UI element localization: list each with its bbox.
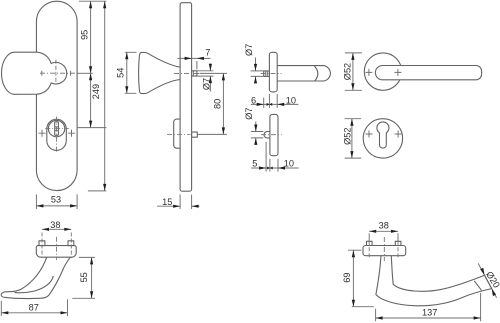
dimension text 249 xyxy=(91,84,101,99)
svg-text:80: 80 xyxy=(213,99,223,109)
extension lines 6 and 10 xyxy=(264,94,278,108)
knob vertical centerline xyxy=(55,60,57,84)
svg-text:54: 54 xyxy=(116,68,126,78)
dimension text 10 xyxy=(284,158,294,168)
keyway xyxy=(55,122,59,135)
dimension text diameter-7 spindle xyxy=(202,78,212,90)
svg-text:6: 6 xyxy=(251,95,256,105)
extension lines 69 xyxy=(348,250,374,307)
screw cross left xyxy=(365,69,372,76)
dimension 80 line xyxy=(222,73,225,134)
dimension text diameter-7 top xyxy=(244,44,254,56)
dimension 15 line xyxy=(157,205,200,208)
cylinder circle xyxy=(48,120,64,136)
cylinder oval xyxy=(47,119,67,150)
extension lines 137 xyxy=(376,293,481,321)
spindle xyxy=(192,71,197,76)
dimension text diameter-52 top xyxy=(343,63,353,80)
screw left xyxy=(367,241,373,245)
dimension 87 line xyxy=(1,311,67,314)
cylinder stub xyxy=(264,132,270,138)
rosette circle xyxy=(363,119,402,158)
dimension 69 line xyxy=(352,250,355,307)
dimension diameter-52 line top xyxy=(351,53,354,90)
extension line cylinder center xyxy=(78,127,107,129)
rosette side outline xyxy=(269,52,277,92)
dimension text 38 xyxy=(379,221,389,231)
plate side outline xyxy=(180,3,192,192)
extension line knob center xyxy=(78,72,93,74)
dimension text 54 xyxy=(116,68,126,78)
dimension text 5 xyxy=(252,158,257,168)
svg-text:95: 95 xyxy=(79,30,89,40)
svg-text:Ø7: Ø7 xyxy=(244,107,254,119)
handle outline xyxy=(1,257,70,298)
svg-text:55: 55 xyxy=(79,272,89,282)
extension lines 5 and 10 xyxy=(266,142,278,172)
svg-text:38: 38 xyxy=(379,221,389,231)
extension lines stub diameter xyxy=(251,132,263,138)
svg-text:249: 249 xyxy=(91,84,101,99)
screw centerlines 38 xyxy=(42,233,71,259)
dimension 249 line xyxy=(103,1,106,191)
stub centerline xyxy=(261,134,282,136)
extension lines 38 xyxy=(369,233,398,258)
rosette side outline xyxy=(270,114,278,155)
cylinder vertical centerline xyxy=(56,117,58,154)
mounting plate xyxy=(36,246,76,258)
dimension diameter-7 stub bottom xyxy=(254,122,257,145)
screw cross right xyxy=(395,131,402,138)
knob side profile xyxy=(139,52,181,93)
svg-text:87: 87 xyxy=(29,302,39,312)
dimension 7 line xyxy=(178,57,211,60)
cylinder end square xyxy=(192,132,198,137)
svg-text:69: 69 xyxy=(342,272,352,282)
dimension diameter-52 line bottom xyxy=(350,119,353,158)
knob front body with neck bump xyxy=(2,52,67,94)
extension ticks 54 xyxy=(125,52,137,93)
svg-text:Ø7: Ø7 xyxy=(202,78,212,90)
dimension text diameter-20 xyxy=(484,270,500,290)
lever side xyxy=(277,66,330,81)
dimension 5-10 line xyxy=(251,166,298,169)
svg-text:137: 137 xyxy=(422,308,437,318)
handle outline xyxy=(376,256,492,306)
dimension text 15 xyxy=(162,197,172,207)
extension lines 80 xyxy=(197,73,227,134)
dimension text 69 xyxy=(342,272,352,282)
dimension text 137 xyxy=(422,308,437,318)
dimension text 55 xyxy=(79,272,89,282)
extension lines 15 xyxy=(180,195,192,210)
plate outline xyxy=(36,1,77,190)
screw tick right xyxy=(70,71,72,76)
dimension 55 line xyxy=(90,257,93,298)
dimension text 38 xyxy=(50,220,60,230)
dimension segment knob-to-cylinder line xyxy=(89,73,92,127)
dimension diameter-7 spindle xyxy=(209,64,212,92)
svg-text:Ø7: Ø7 xyxy=(244,44,254,56)
svg-text:15: 15 xyxy=(162,197,172,207)
plate centerline xyxy=(383,237,385,261)
dimension 38 line xyxy=(369,230,398,233)
plate centerline xyxy=(56,237,58,260)
svg-text:7: 7 xyxy=(205,48,210,58)
handle section line xyxy=(474,281,481,291)
PZ keyhole xyxy=(377,122,389,148)
extension line plate top xyxy=(79,0,107,2)
dimension text 80 xyxy=(213,99,223,109)
screw cross right xyxy=(68,130,75,137)
dimension diameter-20 xyxy=(478,263,496,297)
lever front xyxy=(375,66,481,80)
screw tick left (hidden behind knob) xyxy=(41,71,43,76)
extension lines stub diameter xyxy=(251,71,264,77)
extension ticks diameter-52 bottom xyxy=(345,119,362,158)
screw left xyxy=(39,241,45,246)
dimension text 95 xyxy=(79,30,89,40)
screw right xyxy=(395,241,401,245)
handle crease line xyxy=(15,276,54,293)
extension line spindle tip for 7 xyxy=(196,61,198,69)
extension lines 53 xyxy=(36,194,77,209)
svg-text:10: 10 xyxy=(284,158,294,168)
svg-text:53: 53 xyxy=(51,194,61,204)
dimension 38 line xyxy=(42,228,71,231)
screw cross left xyxy=(38,130,45,137)
svg-text:5: 5 xyxy=(252,158,257,168)
screw cross right xyxy=(394,69,401,76)
dimension 137 line xyxy=(376,316,481,319)
extension lines spindle diameter xyxy=(197,71,214,76)
dimension 6-10 line xyxy=(251,103,299,106)
screw right xyxy=(68,241,74,246)
extension line plate bottom xyxy=(88,190,107,192)
extension lines 55 xyxy=(72,257,95,298)
dimension text 10 xyxy=(286,95,296,105)
lever bend arc xyxy=(314,66,318,81)
spindle centerline xyxy=(174,72,200,74)
cylinder horizontal centerline xyxy=(45,128,69,130)
cylinder bump side xyxy=(174,119,180,148)
dimension text diameter-7 bottom xyxy=(244,107,254,119)
handle end cut xyxy=(485,275,492,288)
dimension text 53 xyxy=(51,194,61,204)
cylinder centerline side xyxy=(167,134,191,136)
knob horizontal centerline xyxy=(40,72,79,74)
screw cross left xyxy=(366,131,373,138)
svg-text:10: 10 xyxy=(286,95,296,105)
extension ticks diameter-52 top xyxy=(345,53,362,90)
dimension text 7 xyxy=(205,48,210,58)
svg-text:Ø52: Ø52 xyxy=(343,63,353,80)
mounting plate xyxy=(363,246,406,256)
spindle stub xyxy=(264,71,270,77)
dimension diameter-7 stub top xyxy=(254,58,257,84)
svg-text:Ø52: Ø52 xyxy=(342,128,352,145)
dimension text diameter-52 bottom xyxy=(342,128,352,145)
dimension 53 line xyxy=(36,204,77,207)
dimension text 6 xyxy=(251,95,256,105)
rosette circle xyxy=(364,53,401,90)
extension lines 87 xyxy=(1,299,67,316)
dimension 54 line xyxy=(125,52,128,93)
stub centerline xyxy=(261,72,282,74)
svg-text:38: 38 xyxy=(50,220,60,230)
dimension text 87 xyxy=(29,302,39,312)
dimension 95 line xyxy=(89,1,92,73)
